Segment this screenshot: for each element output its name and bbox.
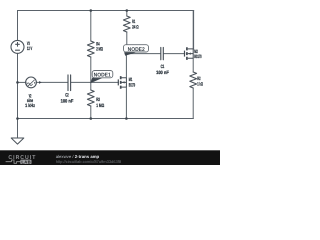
wire R3 top lead bbox=[90, 82, 92, 90]
node NODE1 label box bbox=[92, 71, 113, 79]
node NODE2 label box bbox=[124, 45, 149, 53]
svg-text:1 kΩ: 1 kΩ bbox=[197, 81, 203, 87]
svg-text:1 MΩ: 1 MΩ bbox=[96, 103, 104, 109]
V2 arrow head bbox=[34, 82, 36, 84]
svg-text:R3: R3 bbox=[96, 97, 100, 103]
voltage source V3 circle bbox=[11, 40, 24, 53]
wire right rail (top corner to M2 drain) bbox=[193, 11, 195, 50]
resistor R3 bbox=[87, 90, 94, 106]
svg-text:http://circuitlab.com/c/87u9m3: http://circuitlab.com/c/87u9m33d63f8 bbox=[56, 159, 122, 164]
svg-text:100 nF: 100 nF bbox=[61, 98, 74, 104]
wire R1 top lead bbox=[126, 11, 128, 17]
svg-text:2 MΩ: 2 MΩ bbox=[96, 47, 103, 53]
wire ground stub bbox=[17, 119, 19, 138]
wire R4 top lead bbox=[90, 11, 92, 42]
V2 sine wave bbox=[27, 83, 33, 86]
transistor M1 bbox=[118, 76, 126, 89]
svg-text:R2: R2 bbox=[197, 76, 200, 82]
logo LAB box bbox=[20, 160, 31, 164]
svg-text:100 nF: 100 nF bbox=[156, 70, 169, 76]
svg-text:C1: C1 bbox=[161, 64, 165, 70]
wire left rail upper bbox=[17, 11, 19, 41]
wire R4 bottom lead bbox=[90, 57, 92, 82]
footer bar bbox=[0, 150, 220, 165]
wire bottom rail bbox=[18, 118, 194, 120]
wire V2 to C2 bbox=[37, 81, 68, 83]
wire V2 branch left bbox=[18, 81, 27, 83]
wire NODE2 to C1 bbox=[127, 53, 161, 55]
junction left rail V2 branch bbox=[16, 81, 19, 84]
svg-text:BS170: BS170 bbox=[194, 54, 201, 60]
svg-text:NODE1: NODE1 bbox=[94, 73, 111, 79]
svg-text:M1: M1 bbox=[129, 77, 133, 83]
wire R1 bottom lead bbox=[126, 32, 128, 54]
resistor R2 bbox=[190, 72, 197, 88]
logo waveform line bbox=[6, 160, 21, 163]
svg-text:LAB: LAB bbox=[21, 159, 31, 164]
V3 minus sign bbox=[16, 49, 20, 51]
wire M2 drain bbox=[192, 11, 194, 50]
V3 plus sign bbox=[16, 42, 20, 46]
junction bottom left bbox=[16, 117, 19, 120]
V2 arrow bbox=[28, 80, 35, 86]
wire top rail bbox=[18, 10, 194, 12]
wire C2 to M1 gate bbox=[71, 81, 118, 83]
capacitor C2 plates bbox=[68, 75, 71, 91]
wire M1 drain bbox=[125, 54, 127, 78]
junction top R1 bbox=[126, 9, 129, 12]
wire R2 bottom lead bbox=[192, 88, 194, 119]
wire C1 to M2 gate bbox=[164, 53, 185, 55]
svg-text:24 Ω: 24 Ω bbox=[132, 24, 139, 30]
wire R3 bottom lead bbox=[90, 106, 92, 119]
V2 output arrowhead bbox=[39, 81, 42, 84]
sine source V2 circle bbox=[26, 77, 37, 88]
junction top R4 bbox=[90, 9, 93, 12]
wire left rail lower bbox=[17, 53, 19, 118]
svg-text:BS170: BS170 bbox=[129, 82, 135, 88]
junction bottom R3 bbox=[90, 117, 93, 120]
capacitor C1 plates bbox=[161, 48, 164, 60]
wire M2 source bbox=[192, 58, 194, 72]
svg-text:12 V: 12 V bbox=[27, 46, 33, 52]
transistor M2 bbox=[185, 47, 194, 60]
ground bbox=[11, 138, 24, 144]
resistor R4 bbox=[87, 41, 94, 57]
svg-text:1 kHz: 1 kHz bbox=[25, 103, 35, 109]
junction bottom M1 source bbox=[125, 117, 128, 120]
svg-text:C2: C2 bbox=[65, 92, 69, 98]
node NODE1 pointer bbox=[90, 78, 103, 84]
resistor R1 bbox=[123, 16, 130, 32]
svg-text:R1: R1 bbox=[132, 19, 135, 25]
node NODE2 pointer bbox=[124, 52, 136, 56]
wire M1 source bbox=[125, 87, 127, 119]
svg-text:NODE2: NODE2 bbox=[128, 47, 145, 53]
